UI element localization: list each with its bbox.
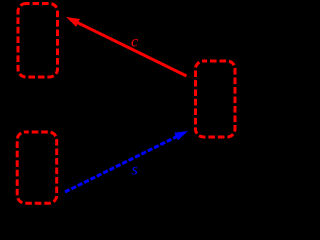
svg-text:c: c: [131, 34, 138, 51]
svg-text:s: s: [132, 162, 138, 179]
